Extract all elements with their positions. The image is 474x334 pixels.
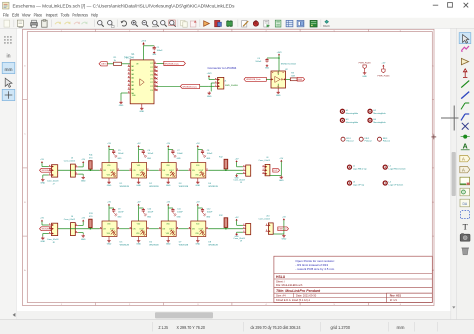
wire vdd xyxy=(197,147,199,163)
main toolbar xyxy=(0,18,474,29)
left toolbar xyxy=(0,29,17,320)
gnd xyxy=(173,213,175,215)
graphic line tool xyxy=(460,210,469,218)
wire xyxy=(273,233,284,235)
logo L3 xyxy=(348,181,352,185)
svg-text:+3V3: +3V3 xyxy=(277,52,283,54)
svg-text:100nF: 100nF xyxy=(148,153,154,155)
cursor crosshair icon selected xyxy=(2,89,15,100)
svg-text:GND: GND xyxy=(40,241,45,243)
svg-text:Edit: Edit xyxy=(12,12,19,17)
junction tool xyxy=(463,135,467,139)
gnd xyxy=(143,154,145,156)
logo L4 xyxy=(383,181,387,185)
svg-text:Conn_01x02: Conn_01x02 xyxy=(64,219,76,221)
canvas xyxy=(17,29,451,312)
wire vdd xyxy=(138,147,140,163)
svg-text:+3V3: +3V3 xyxy=(207,73,213,75)
wire cap xyxy=(198,149,203,151)
gnd xyxy=(203,154,205,156)
svg-text:Conn_01x02: Conn_01x02 xyxy=(64,161,76,163)
pin dout xyxy=(206,169,209,171)
svg-text:+5V: +5V xyxy=(166,143,170,145)
svg-text:GND: GND xyxy=(362,76,367,78)
wire gnd xyxy=(237,231,243,233)
svg-text:74HC244: 74HC244 xyxy=(124,58,134,60)
pin din xyxy=(100,169,103,171)
svg-text:GND: GND xyxy=(207,96,212,98)
wire gnd xyxy=(43,174,49,176)
gnd xyxy=(266,64,268,65)
svg-text:+5V: +5V xyxy=(235,217,239,219)
led D8 xyxy=(191,221,206,237)
connector J5 xyxy=(246,165,251,176)
svg-text:1Y3: 1Y3 xyxy=(150,86,153,88)
svg-text:1A1: 1A1 xyxy=(131,80,134,83)
svg-text:GND: GND xyxy=(40,183,45,185)
svg-text:WS2812B: WS2812B xyxy=(149,244,159,246)
gnd below D1 xyxy=(108,178,110,181)
wire to connector xyxy=(157,85,181,87)
svg-text:100nF: 100nF xyxy=(207,153,213,155)
svg-text:KiCad E.D.A. kicad (5.1.12)-1: KiCad E.D.A. kicad (5.1.12)-1 xyxy=(276,298,311,302)
global label OUT xyxy=(273,168,280,172)
svg-text:View: View xyxy=(22,12,31,17)
pin dout xyxy=(117,169,120,171)
svg-text:GND: GND xyxy=(279,180,284,182)
svg-text:Fiducial: Fiducial xyxy=(365,141,372,143)
mounting hole H3 xyxy=(340,118,344,122)
wire xyxy=(89,169,91,170)
pin dout xyxy=(176,228,179,230)
gnd below D6 xyxy=(138,237,140,240)
wire xyxy=(149,228,159,230)
svg-text:PWR_FLAG: PWR_FLAG xyxy=(377,74,389,77)
fiducial FID1 xyxy=(341,137,345,141)
svg-text:GND: GND xyxy=(107,185,112,187)
wire xyxy=(266,78,271,80)
menu bar xyxy=(0,11,474,18)
svg-text:WS2812B_Data: WS2812B_Data xyxy=(164,62,179,65)
svg-text:Id: 1/1: Id: 1/1 xyxy=(390,298,398,302)
svg-text:1Y2: 1Y2 xyxy=(150,82,153,84)
wire cap xyxy=(109,207,114,209)
svg-text:VSS: VSS xyxy=(195,175,198,177)
wire xyxy=(78,166,83,168)
svg-text:DMX: DMX xyxy=(298,79,303,81)
svg-text:GND: GND xyxy=(265,67,270,69)
svg-text:GND: GND xyxy=(276,95,281,97)
wire gnd left xyxy=(121,92,128,94)
svg-text:WS2812B: WS2812B xyxy=(179,244,189,246)
svg-text:+5V: +5V xyxy=(279,158,283,160)
svg-text:Place: Place xyxy=(34,12,43,17)
svg-text:+3V3: +3V3 xyxy=(141,40,147,42)
wire cap xyxy=(109,149,114,151)
gnd below D4 xyxy=(197,178,199,181)
gnd xyxy=(120,101,122,103)
svg-text:GND: GND xyxy=(166,244,171,246)
wire xyxy=(78,224,83,226)
svg-text:Fiducial: Fiducial xyxy=(383,141,390,143)
svg-text:+5V: +5V xyxy=(235,159,239,161)
wire xyxy=(270,175,281,177)
grid icon xyxy=(4,36,5,37)
wire cap xyxy=(139,207,144,209)
global label WS2812B_5V xyxy=(40,227,52,231)
svg-text:GND: GND xyxy=(152,54,157,56)
pin din xyxy=(129,169,132,171)
svg-text:1Y1: 1Y1 xyxy=(150,63,153,65)
svg-text:- rework PCB size by 4.5 mm: - rework PCB size by 4.5 mm xyxy=(295,267,334,271)
gnd xyxy=(173,154,175,156)
wire xyxy=(200,85,209,87)
wire xyxy=(208,169,243,171)
global label Data_In xyxy=(99,62,107,66)
led D2 xyxy=(132,163,147,179)
wire gnd xyxy=(211,82,215,84)
svg-text:Fiducial: Fiducial xyxy=(346,141,353,143)
gnd xyxy=(143,213,145,215)
highlight net tool xyxy=(461,46,469,51)
pin dout xyxy=(206,228,209,230)
global label WS2812B_Data mid xyxy=(180,84,199,88)
svg-text:GND: GND xyxy=(139,111,144,113)
svg-text:X 299.70 Y 76.20: X 299.70 Y 76.20 xyxy=(177,325,206,331)
gnd below D7 xyxy=(167,237,169,240)
svg-text:GND: GND xyxy=(136,185,141,187)
gnd xyxy=(280,176,282,178)
svg-text:+5V: +5V xyxy=(81,159,85,161)
svg-text:Tools: Tools xyxy=(61,12,70,17)
led D7 xyxy=(161,221,176,237)
svg-text:Conn_01x03: Conn_01x03 xyxy=(233,179,245,181)
wire xyxy=(208,228,243,230)
svg-text:VSS: VSS xyxy=(107,233,110,235)
cursor style icon xyxy=(5,78,12,87)
svg-text:Logo HSLU top: Logo HSLU top xyxy=(353,168,368,171)
svg-text:100nF: 100nF xyxy=(255,61,262,63)
wire xyxy=(41,221,43,225)
wire cap xyxy=(168,207,173,209)
svg-text:GND: GND xyxy=(195,244,200,246)
svg-text:MountingHole: MountingHole xyxy=(373,121,386,124)
connector J7 xyxy=(52,165,58,177)
svg-text:DBG: DBG xyxy=(101,64,106,66)
svg-text:1A2: 1A2 xyxy=(131,69,134,72)
svg-text:GND: GND xyxy=(147,217,152,219)
mouse crosshair cursor xyxy=(441,117,459,119)
gnd xyxy=(114,154,116,156)
fiducial FID2 xyxy=(359,137,363,141)
svg-text:WS2812B: WS2812B xyxy=(120,186,130,188)
svg-text:Eeschema — McuLinkLEDs.sch [/]: Eeschema — McuLinkLEDs.sch [/] — C:\User… xyxy=(13,4,236,9)
svg-text:1Y4: 1Y4 xyxy=(150,90,153,92)
svg-text:+5V: +5V xyxy=(381,63,385,65)
gnd xyxy=(42,178,44,180)
led D5 xyxy=(102,221,117,237)
gnd U1 bottom xyxy=(141,104,143,107)
svg-text:GND: GND xyxy=(177,217,182,219)
svg-text:+5V: +5V xyxy=(282,217,286,219)
connector J8 xyxy=(52,223,58,235)
wire xyxy=(89,228,91,229)
svg-text:GND: GND xyxy=(206,217,211,219)
pin din xyxy=(188,228,191,230)
svg-text:Conn_01x03: Conn_01x03 xyxy=(47,180,59,182)
gnd xyxy=(82,234,84,236)
gnd xyxy=(283,234,285,236)
wire xyxy=(236,162,238,167)
junction xyxy=(278,57,280,59)
svg-text:grid 1.2700: grid 1.2700 xyxy=(331,325,351,331)
svg-text:DA: DA xyxy=(462,202,467,206)
svg-text:GND: GND xyxy=(177,158,182,160)
svg-text:1A1: 1A1 xyxy=(131,65,134,68)
svg-text:PWR_FLAG: PWR_FLAG xyxy=(359,62,371,65)
wire entry tool xyxy=(461,103,465,109)
pin dout xyxy=(176,169,179,171)
svg-text:Title: McuLinkPro Pendant: Title: McuLinkPro Pendant xyxy=(276,289,321,293)
wire vcc xyxy=(278,55,280,71)
gnd xyxy=(236,175,238,176)
wire xyxy=(283,220,285,234)
minimize button xyxy=(433,4,438,6)
svg-text:Z 1.25: Z 1.25 xyxy=(159,325,169,331)
logo L1 xyxy=(348,165,352,169)
resistor R14 xyxy=(224,218,228,228)
pin din xyxy=(159,169,162,171)
wire data row xyxy=(58,228,100,230)
power +3V3 xyxy=(142,42,145,44)
svg-text:mm: mm xyxy=(5,68,13,73)
global label WS2812B_Data out xyxy=(157,62,164,64)
wire xyxy=(51,169,58,171)
led D1 xyxy=(102,163,117,179)
wire gnd xyxy=(78,173,83,175)
svg-text:GND: GND xyxy=(117,158,122,160)
svg-text:Conn_01x02: Conn_01x02 xyxy=(259,219,271,221)
gnd below D8 xyxy=(197,237,199,240)
svg-text:GND: GND xyxy=(81,239,86,241)
svg-text:A: A xyxy=(462,157,465,162)
global label tool xyxy=(460,155,470,161)
svg-text:+5V: +5V xyxy=(166,201,170,203)
svg-text:MountingHole: MountingHole xyxy=(373,112,386,115)
wire xyxy=(41,163,43,167)
svg-text:+5V: +5V xyxy=(107,201,111,203)
pin din xyxy=(159,228,162,230)
svg-text:MountingHole: MountingHole xyxy=(346,121,359,124)
svg-text:WS2812B: WS2812B xyxy=(120,244,130,246)
svg-text:GND: GND xyxy=(81,180,86,182)
wire xyxy=(107,63,113,65)
mounting hole H1 xyxy=(340,109,344,113)
gnd below D3 xyxy=(167,178,169,181)
svg-text:Conn_01x03: Conn_01x03 xyxy=(259,160,271,162)
delete tool xyxy=(462,248,468,254)
svg-text:Inspect: Inspect xyxy=(46,12,59,17)
svg-text:WS2812B_Data: WS2812B_Data xyxy=(183,85,198,88)
svg-text:Preferences: Preferences xyxy=(72,12,88,17)
svg-text:WS2812B: WS2812B xyxy=(208,186,218,188)
svg-text:Connector to LPC804: Connector to LPC804 xyxy=(208,66,237,70)
mm icon selected xyxy=(2,62,15,73)
right toolbar xyxy=(457,29,474,320)
svg-text:MountingHole: MountingHole xyxy=(346,112,359,115)
wire xyxy=(208,77,210,80)
horizontal scrollbar xyxy=(17,311,451,320)
svg-text:1A4: 1A4 xyxy=(131,92,134,95)
gnd U2 xyxy=(277,88,279,91)
pin din xyxy=(100,228,103,230)
gnd below D2 xyxy=(138,178,140,181)
led D3 xyxy=(161,163,176,179)
led D6 xyxy=(132,221,147,237)
svg-text:+5V: +5V xyxy=(40,159,44,161)
svg-text:GND: GND xyxy=(147,158,152,160)
svg-text:mm: mm xyxy=(397,326,405,331)
svg-text:T: T xyxy=(463,222,468,231)
wire cap xyxy=(139,149,144,151)
pin din xyxy=(188,169,191,171)
svg-text:Sheet: /: Sheet: / xyxy=(276,280,285,284)
wire xyxy=(120,228,130,230)
wire vdd xyxy=(167,147,169,163)
svg-text:1Y1: 1Y1 xyxy=(150,78,153,80)
U1 right pins xyxy=(154,62,157,64)
svg-text:A: A xyxy=(462,168,465,173)
app icon xyxy=(3,2,9,9)
svg-text:VSS: VSS xyxy=(166,175,169,177)
wire xyxy=(296,78,298,80)
connector J9 xyxy=(246,224,251,235)
svg-text:VSS: VSS xyxy=(107,175,110,177)
gnd xyxy=(42,236,44,238)
wire VCC xyxy=(143,46,145,60)
image tool xyxy=(460,234,470,241)
bus entry tool xyxy=(461,114,465,120)
svg-text:DMX_out: DMX_out xyxy=(278,228,287,231)
wire xyxy=(225,227,227,228)
wire vdd xyxy=(197,205,199,221)
gnd xyxy=(203,213,205,215)
global label DMX_out xyxy=(278,227,289,231)
svg-text:1Y3: 1Y3 xyxy=(150,71,153,73)
svg-text:Logo OP top: Logo OP top xyxy=(353,184,365,187)
place wire tool xyxy=(461,81,469,88)
sheet frame xyxy=(23,29,435,305)
wire vdd xyxy=(108,147,110,163)
wire gnd xyxy=(43,233,49,235)
svg-text:WS2812B: WS2812B xyxy=(149,186,159,188)
gnd xyxy=(153,51,155,52)
svg-text:GND: GND xyxy=(107,244,112,246)
svg-text:1A3: 1A3 xyxy=(131,73,134,76)
svg-text:File: McuLinkLEDs.sch: File: McuLinkLEDs.sch xyxy=(276,283,303,287)
svg-text:100nF: 100nF xyxy=(148,211,154,213)
svg-text:100nF: 100nF xyxy=(118,153,124,155)
svg-text:VSS: VSS xyxy=(136,175,139,177)
no connect tool xyxy=(462,123,469,130)
global label WS2812B_5V xyxy=(40,168,52,172)
wire gnd xyxy=(237,173,243,175)
title bar xyxy=(0,0,474,11)
svg-text:in: in xyxy=(6,53,10,59)
wire xyxy=(280,162,282,176)
gnd below D5 xyxy=(108,237,110,240)
svg-text:GND: GND xyxy=(119,105,124,107)
svg-text:HSLU: HSLU xyxy=(276,275,286,279)
svg-text:VSS: VSS xyxy=(166,233,169,235)
wire xyxy=(149,169,159,171)
svg-text:GND: GND xyxy=(206,158,211,160)
svg-text:100nF: 100nF xyxy=(177,211,183,213)
svg-text:Conn_01x03: Conn_01x03 xyxy=(47,239,59,241)
svg-text:GND: GND xyxy=(117,217,122,219)
wire cap xyxy=(267,57,279,59)
svg-text:1Y2: 1Y2 xyxy=(150,67,153,69)
svg-text:1A3: 1A3 xyxy=(131,88,134,91)
svg-text:1A4: 1A4 xyxy=(131,77,134,80)
toolbar icons xyxy=(4,20,10,27)
wire xyxy=(51,228,58,230)
vertical scrollbar xyxy=(451,29,457,320)
wire data row xyxy=(58,169,100,171)
svg-text:GND: GND xyxy=(136,244,141,246)
pin din xyxy=(129,228,132,230)
svg-text:+5V: +5V xyxy=(40,218,44,220)
wire cap xyxy=(198,207,203,209)
mounting hole H2 xyxy=(368,109,372,113)
svg-text:VSS: VSS xyxy=(136,233,139,235)
svg-text:VSS: VSS xyxy=(195,233,198,235)
wire cap xyxy=(168,149,173,151)
svg-text:BACK: BACK xyxy=(323,25,330,28)
svg-text:+5V: +5V xyxy=(107,143,111,145)
place power port tool xyxy=(464,71,466,77)
svg-text:Size: A4: Size: A4 xyxy=(276,294,286,298)
hierarchical sheet tool xyxy=(460,177,470,185)
svg-text:1Y4: 1Y4 xyxy=(150,75,153,77)
svg-text:Help: Help xyxy=(91,12,98,17)
svg-text:100nF: 100nF xyxy=(157,50,164,52)
gnd xyxy=(236,233,238,234)
gnd xyxy=(114,213,116,215)
resistor R12 xyxy=(224,159,228,169)
svg-text:+5V: +5V xyxy=(81,218,85,220)
title block xyxy=(274,256,432,302)
svg-text:100nF: 100nF xyxy=(118,211,124,213)
hierarchical label tool xyxy=(460,166,470,172)
wire xyxy=(225,169,227,170)
place symbol tool xyxy=(461,58,468,64)
logo L2 xyxy=(383,165,387,169)
maximize button xyxy=(448,3,453,8)
wire xyxy=(179,169,189,171)
svg-text:GND: GND xyxy=(166,185,171,187)
wire xyxy=(236,221,238,226)
close button xyxy=(464,3,469,8)
wire xyxy=(120,169,130,171)
svg-text:+5V: +5V xyxy=(196,201,200,203)
mounting hole H4 xyxy=(368,118,372,122)
svg-text:Logo OP bottom: Logo OP bottom xyxy=(389,184,404,187)
U1 left pins xyxy=(128,65,131,67)
select tool selected xyxy=(459,33,471,44)
svg-text:Rev: HS1: Rev: HS1 xyxy=(390,294,402,298)
svg-text:GND: GND xyxy=(282,239,287,241)
